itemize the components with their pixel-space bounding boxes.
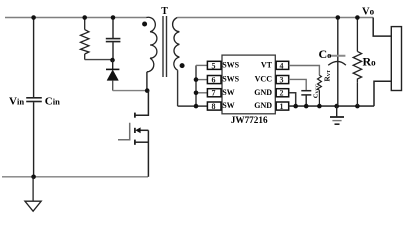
- node junction switch node: [145, 88, 150, 93]
- svg-text:4: 4: [280, 61, 284, 70]
- wire pin5 lead: [196, 64, 207, 66]
- wire pin2 down: [289, 93, 296, 106]
- svg-text:5: 5: [212, 61, 216, 70]
- svg-text:GND: GND: [254, 88, 272, 97]
- transformer T secondary winding: [173, 18, 180, 71]
- wire pin4 to Rvt: [289, 66, 320, 76]
- svg-text:SWS: SWS: [222, 60, 239, 69]
- node junction Rvt bus: [317, 104, 322, 109]
- svg-text:VCC: VCC: [255, 75, 273, 84]
- svg-text:SWS: SWS: [222, 75, 239, 84]
- wire secondary bottom lead: [177, 70, 179, 106]
- svg-text:Cin: Cin: [45, 96, 60, 108]
- svg-text:8: 8: [212, 102, 216, 111]
- resistor Ro: [353, 18, 361, 107]
- transistor Q1 MOSFET: [118, 91, 148, 177]
- arrow body of Q1: [135, 127, 140, 133]
- wire pin3 to Cvcc: [289, 79, 307, 90]
- wire diode to switch node: [113, 90, 148, 92]
- wire load bottom stub: [374, 81, 391, 106]
- svg-text:GND: GND: [254, 101, 272, 110]
- pin 6 box: [207, 76, 221, 85]
- svg-text:7: 7: [212, 89, 216, 98]
- capacitor Co: [328, 18, 346, 106]
- svg-text:3: 3: [280, 76, 284, 85]
- svg-text:1: 1: [280, 102, 284, 111]
- pin 8 box: [207, 102, 221, 111]
- source lead: [136, 141, 149, 143]
- svg-text:JW77216: JW77216: [231, 115, 268, 125]
- svg-text:Ro: Ro: [363, 55, 377, 69]
- wire pin6 lead: [196, 79, 207, 81]
- pin 1 box: [276, 102, 289, 111]
- ground output: [330, 106, 344, 124]
- svg-text:SW: SW: [222, 88, 234, 97]
- wire top rail left: [5, 17, 147, 19]
- pin 3 box: [276, 76, 289, 85]
- transformer T core: [162, 16, 164, 77]
- svg-text:Vin: Vin: [9, 96, 24, 108]
- gate lead: [118, 123, 130, 140]
- node junction pin2 bus: [293, 104, 298, 109]
- wire load top stub: [373, 18, 391, 37]
- wire secondary to pin8: [178, 105, 208, 107]
- node junction ground bus: [334, 104, 339, 109]
- wire top rail right: [177, 17, 373, 19]
- pin 5 box: [207, 61, 221, 70]
- wire ground bus: [289, 105, 374, 107]
- wire bottom rail left: [2, 176, 148, 178]
- body lead: [140, 129, 148, 131]
- node junction sws pin7: [194, 91, 199, 96]
- node junction Ro bus: [355, 104, 360, 109]
- pin 4 box: [276, 61, 289, 70]
- ground input: [25, 177, 41, 211]
- node junction sws pin8: [194, 104, 199, 109]
- svg-text:CVCC: CVCC: [313, 84, 320, 98]
- capacitor Cvcc: [301, 91, 311, 106]
- node junction R snubber top: [82, 15, 87, 20]
- node junction Cvcc bus: [304, 104, 309, 109]
- node junction Ro top: [355, 15, 360, 20]
- wire R to C node: [85, 59, 113, 61]
- svg-text:2: 2: [280, 89, 284, 98]
- svg-text:SW: SW: [222, 101, 234, 110]
- drain lead: [136, 91, 149, 116]
- node junction snubber-diode: [110, 58, 115, 63]
- wire SWS bus vertical: [195, 65, 197, 106]
- op-amp U1 JW77216 body: [222, 55, 275, 114]
- polarity dot primary: [142, 22, 147, 27]
- pin 7 box: [207, 89, 221, 98]
- diode D1 clamp: [106, 60, 119, 91]
- pin 2 box: [276, 89, 289, 98]
- wire primary bottom lead: [146, 72, 148, 91]
- polarity dot secondary: [180, 63, 185, 68]
- svg-text:VT: VT: [261, 60, 273, 69]
- svg-text:6: 6: [212, 76, 216, 85]
- node junction Co top: [336, 15, 341, 20]
- resistor Rvt: [318, 75, 322, 106]
- node junction Cin top: [31, 15, 36, 20]
- svg-text:T: T: [161, 6, 168, 17]
- capacitor Cin: [26, 18, 42, 177]
- load box: [391, 27, 401, 91]
- channel dashes: [134, 113, 136, 118]
- wire pin7 lead: [196, 92, 207, 94]
- node junction C snubber top: [111, 15, 116, 20]
- node junction sws pin6: [194, 77, 199, 82]
- capacitor C snubber: [106, 18, 121, 61]
- svg-text:Vo: Vo: [362, 7, 375, 18]
- resistor R snubber: [81, 18, 89, 60]
- svg-text:Co: Co: [319, 47, 332, 61]
- node junction Cin bottom: [31, 175, 36, 180]
- transformer T primary winding: [146, 17, 157, 72]
